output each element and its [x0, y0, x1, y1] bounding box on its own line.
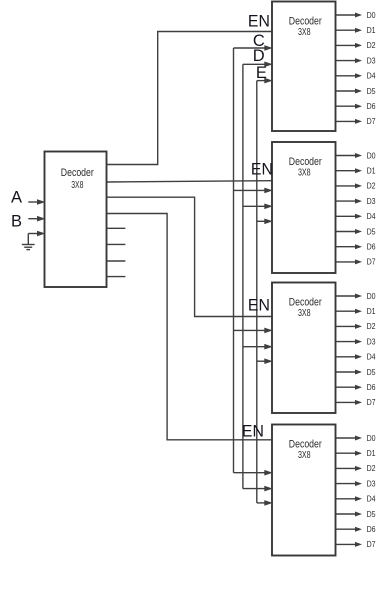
svg-text:3X8: 3X8: [298, 450, 311, 461]
svg-text:D1: D1: [367, 25, 376, 35]
svg-text:D5: D5: [367, 226, 376, 236]
svg-text:D4: D4: [367, 494, 376, 504]
svg-text:Decoder: Decoder: [289, 439, 322, 451]
svg-text:D1: D1: [367, 166, 376, 176]
svg-text:D2: D2: [367, 181, 376, 191]
svg-text:D2: D2: [367, 463, 376, 473]
svg-text:EN: EN: [248, 296, 270, 314]
svg-text:B: B: [11, 213, 22, 231]
svg-text:D7: D7: [367, 116, 376, 126]
svg-text:E: E: [256, 64, 267, 82]
svg-text:D1: D1: [367, 306, 376, 316]
svg-text:D: D: [253, 47, 265, 65]
svg-text:EN: EN: [251, 160, 273, 178]
svg-text:D0: D0: [367, 433, 376, 443]
svg-text:3X8: 3X8: [298, 168, 311, 179]
svg-text:D3: D3: [367, 336, 376, 346]
svg-text:EN: EN: [242, 422, 264, 440]
svg-text:D3: D3: [367, 196, 376, 206]
svg-text:D5: D5: [367, 509, 376, 519]
svg-text:Decoder: Decoder: [289, 16, 322, 28]
svg-text:3X8: 3X8: [298, 27, 311, 38]
svg-text:D3: D3: [367, 55, 376, 65]
svg-text:D7: D7: [367, 539, 376, 549]
svg-text:D6: D6: [367, 242, 376, 252]
svg-text:A: A: [11, 188, 22, 206]
svg-text:D0: D0: [367, 291, 376, 301]
svg-text:D4: D4: [367, 352, 376, 362]
svg-text:Decoder: Decoder: [61, 167, 94, 179]
svg-text:D5: D5: [367, 367, 376, 377]
svg-text:D7: D7: [367, 397, 376, 407]
svg-text:D2: D2: [367, 40, 376, 50]
svg-text:D6: D6: [367, 524, 376, 534]
svg-text:D6: D6: [367, 382, 376, 392]
svg-text:3X8: 3X8: [71, 180, 83, 191]
svg-text:D7: D7: [367, 257, 376, 267]
svg-text:D5: D5: [367, 86, 376, 96]
svg-text:Decoder: Decoder: [289, 156, 322, 168]
svg-text:D2: D2: [367, 321, 376, 331]
svg-text:D4: D4: [367, 71, 376, 81]
svg-text:EN: EN: [248, 12, 270, 30]
svg-text:D0: D0: [367, 10, 376, 20]
svg-text:Decoder: Decoder: [289, 297, 322, 309]
svg-text:D6: D6: [367, 101, 376, 111]
svg-text:D3: D3: [367, 478, 376, 488]
svg-text:D0: D0: [367, 150, 376, 160]
svg-text:D1: D1: [367, 448, 376, 458]
svg-text:D4: D4: [367, 211, 376, 221]
svg-text:3X8: 3X8: [298, 308, 311, 319]
